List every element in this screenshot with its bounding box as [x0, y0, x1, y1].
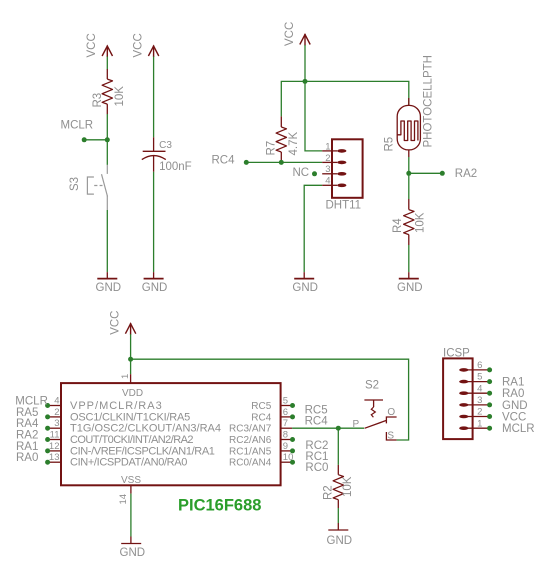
svg-text:VCC: VCC: [86, 33, 98, 57]
svg-text:C3: C3: [159, 140, 172, 151]
svg-text:VCC: VCC: [284, 22, 296, 46]
svg-text:2: 2: [325, 153, 330, 164]
svg-text:1: 1: [325, 141, 330, 152]
svg-text:RC2/AN6: RC2/AN6: [229, 435, 272, 446]
svg-text:MCLR: MCLR: [15, 396, 48, 408]
svg-text:RA0: RA0: [16, 452, 38, 464]
svg-text:RC3/AN7: RC3/AN7: [229, 424, 272, 435]
svg-text:1: 1: [477, 418, 482, 429]
svg-text:2: 2: [477, 407, 482, 418]
svg-text:R3: R3: [92, 93, 104, 108]
svg-text:RA1: RA1: [16, 441, 38, 453]
svg-text:GND: GND: [397, 282, 423, 294]
svg-text:GND: GND: [292, 282, 318, 294]
svg-text:RA4: RA4: [16, 418, 39, 430]
svg-text:O: O: [387, 407, 395, 418]
svg-text:12: 12: [49, 441, 60, 452]
svg-text:5: 5: [283, 396, 288, 407]
svg-text:RC1/AN5: RC1/AN5: [229, 446, 272, 457]
svg-text:7: 7: [283, 418, 288, 429]
svg-text:VCC: VCC: [133, 33, 145, 57]
svg-text:DHT11: DHT11: [326, 200, 362, 212]
svg-text:MCLR: MCLR: [502, 423, 535, 435]
svg-text:T1G/OSC2/CLKOUT/AN3/RA4: T1G/OSC2/CLKOUT/AN3/RA4: [70, 423, 221, 435]
svg-text:4: 4: [325, 176, 330, 187]
svg-text:9: 9: [283, 441, 288, 452]
svg-text:S: S: [387, 431, 394, 442]
svg-text:4.7K: 4.7K: [288, 132, 300, 156]
svg-text:1: 1: [120, 374, 131, 379]
svg-text:PHOTOCELLPTH: PHOTOCELLPTH: [423, 55, 435, 147]
svg-text:GND: GND: [142, 282, 168, 294]
svg-text:VCC: VCC: [502, 411, 526, 423]
svg-text:6: 6: [477, 360, 482, 371]
svg-text:GND: GND: [96, 282, 122, 294]
svg-text:COUT/T0CKI/INT/AN2/RA2: COUT/T0CKI/INT/AN2/RA2: [70, 434, 193, 446]
svg-text:NC: NC: [293, 167, 310, 179]
svg-text:10K: 10K: [414, 212, 426, 233]
svg-text:3: 3: [325, 164, 330, 175]
svg-text:OSC1/CLKIN/T1CKI/RA5: OSC1/CLKIN/T1CKI/RA5: [70, 411, 190, 423]
svg-text:RC5: RC5: [251, 401, 271, 412]
svg-text:RA0: RA0: [502, 388, 524, 400]
svg-text:100nF: 100nF: [159, 161, 192, 173]
svg-text:R7: R7: [266, 141, 278, 156]
svg-text:8: 8: [283, 430, 288, 441]
svg-text:VCC: VCC: [110, 311, 122, 335]
svg-text:14: 14: [118, 494, 129, 505]
svg-text:13: 13: [49, 452, 60, 463]
svg-text:R2: R2: [323, 485, 335, 500]
svg-text:5: 5: [477, 372, 482, 383]
svg-text:P: P: [353, 419, 360, 430]
svg-text:CIN-/VREF/ICSPCLK/AN1/RA1: CIN-/VREF/ICSPCLK/AN1/RA1: [70, 445, 215, 457]
svg-text:RC4: RC4: [212, 155, 236, 167]
svg-text:VPP/MCLR/RA3: VPP/MCLR/RA3: [70, 400, 163, 412]
svg-text:VSS: VSS: [121, 475, 141, 486]
svg-text:GND: GND: [327, 535, 353, 547]
svg-text:4: 4: [477, 383, 482, 394]
svg-text:3: 3: [54, 418, 59, 429]
svg-text:3: 3: [477, 395, 482, 406]
svg-text:GND: GND: [120, 547, 146, 559]
svg-text:11: 11: [50, 430, 60, 441]
svg-text:RC4: RC4: [251, 412, 271, 423]
svg-text:S3: S3: [69, 177, 81, 191]
svg-text:6: 6: [283, 407, 288, 418]
svg-text:10K: 10K: [114, 86, 126, 107]
svg-text:RC0/AN4: RC0/AN4: [229, 458, 272, 469]
svg-text:2: 2: [54, 407, 59, 418]
svg-text:RA5: RA5: [16, 407, 38, 419]
svg-text:RA2: RA2: [455, 168, 477, 180]
svg-text:R5: R5: [384, 137, 396, 152]
svg-text:RC0: RC0: [305, 462, 328, 474]
svg-text:10K: 10K: [342, 476, 354, 497]
svg-text:PIC16F688: PIC16F688: [178, 496, 261, 514]
svg-text:CIN+/ICSPDAT/AN0/RA0: CIN+/ICSPDAT/AN0/RA0: [70, 457, 187, 469]
svg-text:10: 10: [283, 452, 294, 463]
svg-text:RC4: RC4: [305, 416, 329, 428]
svg-text:GND: GND: [502, 400, 528, 412]
svg-text:RA1: RA1: [502, 377, 524, 389]
svg-text:R4: R4: [392, 218, 404, 233]
svg-text:VDD: VDD: [122, 388, 143, 399]
svg-text:RA2: RA2: [16, 430, 38, 442]
svg-text:4: 4: [54, 396, 59, 407]
svg-text:S2: S2: [365, 380, 379, 392]
svg-text:MCLR: MCLR: [61, 120, 94, 132]
